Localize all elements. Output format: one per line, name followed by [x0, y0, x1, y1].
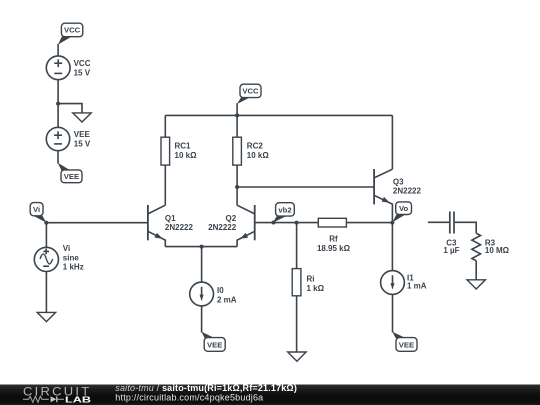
- junction: [295, 221, 299, 225]
- svg-text:Vi: Vi: [33, 205, 40, 214]
- junction: [44, 221, 48, 225]
- wire: [57, 44, 59, 56]
- wire: [164, 115, 166, 137]
- svg-text:Rf: Rf: [329, 234, 338, 243]
- svg-text:Vi: Vi: [63, 244, 70, 253]
- wire: [392, 294, 394, 332]
- junction: [235, 185, 239, 189]
- wire: [346, 222, 392, 224]
- resistor RC1 10k: [161, 137, 197, 165]
- svg-text:15 V: 15 V: [74, 68, 91, 77]
- wire (rail to Q3 base): [237, 186, 374, 188]
- logo waveform (resistor + diode): [23, 396, 64, 402]
- svg-text:1 kHz: 1 kHz: [63, 263, 84, 272]
- wire: [57, 151, 59, 164]
- wire (C3 left lead): [428, 221, 449, 223]
- wire (top rail): [165, 114, 392, 116]
- svg-text:saito-tmu / saito-tmu(Ri=1kΩ,R: saito-tmu / saito-tmu(Ri=1kΩ,Rf=21.17kΩ): [115, 383, 297, 393]
- svg-text:Ri: Ri: [307, 275, 315, 284]
- wire: [475, 261, 477, 280]
- transistor Q3 2N2222: [374, 169, 421, 223]
- net label VCC (top left): [58, 23, 83, 44]
- svg-text:10 MΩ: 10 MΩ: [485, 246, 510, 255]
- wire: [45, 223, 47, 248]
- resistor R3 10M: [472, 233, 510, 261]
- wire: [45, 272, 47, 313]
- capacitor C3 1uF: [443, 212, 459, 256]
- transistor Q2 2N2222: [208, 205, 255, 247]
- junction: [200, 245, 204, 249]
- logo CIRCUIT: [23, 387, 92, 399]
- resistor Ri 1k: [292, 269, 324, 296]
- voltage source V1 VCC 15V: [46, 56, 90, 80]
- wire: [296, 223, 298, 269]
- net label Vo: [393, 202, 412, 222]
- transistor Q1 2N2222: [148, 205, 194, 247]
- wire: [57, 80, 59, 128]
- ground: [37, 312, 55, 321]
- svg-text:I0: I0: [217, 286, 224, 295]
- net label Vi: [30, 203, 46, 223]
- svg-text:1 µF: 1 µF: [443, 246, 459, 255]
- svg-text:LAB: LAB: [65, 394, 91, 404]
- voltage source V2 VEE 15V: [46, 127, 91, 150]
- svg-text:2 mA: 2 mA: [217, 296, 237, 305]
- resistor Rf 18.95k: [317, 218, 351, 253]
- svg-text:RC1: RC1: [175, 142, 192, 151]
- svg-text:VCC: VCC: [64, 26, 81, 35]
- svg-text:VEE: VEE: [74, 130, 91, 139]
- ground: [288, 352, 306, 361]
- svg-text:Q1: Q1: [165, 214, 176, 223]
- wire: [236, 115, 238, 137]
- svg-text:15 V: 15 V: [74, 139, 91, 148]
- resistor RC2 10k: [233, 137, 270, 165]
- wire: [164, 165, 166, 205]
- svg-text:VEE: VEE: [399, 340, 414, 349]
- ground: [467, 280, 485, 289]
- svg-text:10 kΩ: 10 kΩ: [175, 151, 198, 160]
- svg-text:Vo: Vo: [399, 204, 409, 213]
- svg-text:VEE: VEE: [207, 340, 222, 349]
- wire: [236, 103, 238, 115]
- wire: [46, 222, 148, 224]
- wire: [201, 247, 203, 283]
- svg-text:sine: sine: [63, 253, 80, 262]
- net label VEE (I0): [201, 332, 225, 352]
- junction: [390, 221, 394, 225]
- wire: [201, 306, 203, 333]
- current source I0 2mA: [190, 282, 237, 306]
- svg-text:1 mA: 1 mA: [407, 282, 427, 291]
- wire: [455, 222, 476, 233]
- svg-text:1 kΩ: 1 kΩ: [307, 284, 325, 293]
- svg-text:Q2: Q2: [226, 214, 237, 223]
- ground: [73, 113, 91, 122]
- net label VEE (left): [58, 163, 82, 183]
- svg-text:vb2: vb2: [278, 205, 291, 214]
- svg-text:18.95 kΩ: 18.95 kΩ: [317, 244, 351, 253]
- junction: [56, 102, 60, 106]
- svg-text:2N2222: 2N2222: [393, 187, 422, 196]
- wire: [391, 223, 393, 271]
- footer line 1: [115, 383, 297, 393]
- svg-text:VEE: VEE: [64, 172, 79, 181]
- svg-text:2N2222: 2N2222: [165, 223, 194, 232]
- svg-text:RC2: RC2: [247, 142, 264, 151]
- svg-text:2N2222: 2N2222: [208, 223, 237, 232]
- current source I1 1mA: [381, 271, 427, 295]
- footer bar: [0, 385, 540, 405]
- svg-text:Q3: Q3: [393, 177, 404, 186]
- wire: [236, 165, 238, 205]
- logo LAB: [65, 394, 91, 404]
- net label vb2: [272, 203, 295, 225]
- svg-text:http://circuitlab.com/c4pqke5b: http://circuitlab.com/c4pqke5budj6a: [115, 393, 263, 403]
- wire (Q3 collector): [391, 115, 393, 169]
- net label VCC (rail): [237, 84, 261, 104]
- wire (emitter rail): [165, 246, 237, 248]
- net label VEE (I1): [392, 332, 417, 352]
- svg-text:10 kΩ: 10 kΩ: [247, 151, 270, 160]
- junction: [235, 113, 239, 117]
- svg-text:VCC: VCC: [74, 59, 91, 68]
- wire: [58, 104, 82, 113]
- voltage source Vi sine 1kHz: [34, 244, 83, 271]
- wire (Q2 base to Rf): [255, 222, 319, 224]
- svg-text:VCC: VCC: [242, 87, 259, 96]
- footer line 2: [115, 393, 263, 403]
- wire: [296, 296, 298, 352]
